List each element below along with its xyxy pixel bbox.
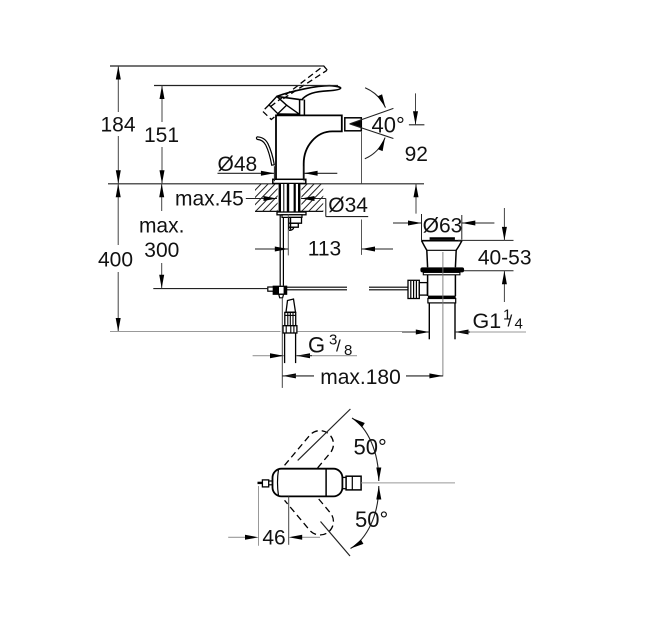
dimension 400 bottom reference line: [110, 331, 281, 333]
svg-text:50°: 50°: [354, 434, 387, 459]
svg-text:/: /: [336, 337, 341, 356]
hose tube: [284, 333, 286, 363]
svg-text:G1: G1: [473, 309, 502, 333]
svg-text:400: 400: [98, 248, 133, 271]
mounting washer: [277, 212, 306, 215]
side outlet tube: [419, 283, 427, 296]
svg-text:40-53: 40-53: [478, 246, 532, 269]
svg-text:40°: 40°: [372, 112, 405, 137]
faucet body outline: [276, 115, 342, 179]
svg-text:Ø48: Ø48: [218, 153, 258, 176]
mounting nut: [282, 215, 302, 218]
faucet centre line below deck: [287, 215, 289, 256]
aerator block: [345, 118, 362, 131]
svg-text:92: 92: [405, 143, 428, 166]
svg-text:Ø34: Ø34: [328, 194, 368, 217]
svg-text:G: G: [308, 333, 325, 358]
centre line right: [361, 482, 455, 484]
handle base cube: [269, 96, 287, 113]
dimension 151 extension line: [154, 85, 338, 87]
dimension 184: [100, 66, 135, 184]
horizontal rod double segment: [287, 286, 347, 288]
shank (threaded) below deck: [279, 184, 301, 213]
svg-text:4: 4: [515, 316, 523, 333]
svg-text:max.45: max.45: [175, 188, 244, 211]
junction bottom tip: [279, 294, 284, 298]
body divider line: [325, 469, 327, 496]
dimension max.45 leader: [175, 188, 277, 211]
dimension 92: [405, 93, 428, 213]
svg-text:Ø63: Ø63: [423, 214, 463, 237]
body left inner step: [278, 469, 279, 496]
handle swing dashed position upper: [285, 425, 339, 483]
handle neck: [299, 99, 301, 114]
svg-text:151: 151: [144, 124, 179, 147]
dimension max.180: [282, 298, 443, 389]
rod junction block: [273, 286, 286, 294]
base plate: [273, 179, 306, 183]
svg-text:/: /: [508, 312, 513, 331]
svg-text:8: 8: [344, 342, 352, 359]
hose angled top: [286, 299, 296, 312]
dimension G1 1/4: [402, 307, 526, 335]
swing limit line lower: [321, 522, 351, 557]
actuator step 2: [289, 223, 299, 227]
dimension 151: [144, 86, 179, 184]
handle swing dashed position lower: [285, 483, 339, 541]
rubber gasket: [420, 267, 464, 272]
flange joint line: [427, 249, 456, 251]
aerator block top view: [346, 476, 361, 490]
hose G3/8 nut: [283, 326, 297, 333]
spout neck: [342, 476, 346, 478]
pull rod top view: [258, 482, 263, 484]
pop-up waste drain body: [408, 237, 464, 376]
junction left tube: [268, 287, 274, 291]
plug cap: [430, 237, 455, 240]
dimension 50deg lower: [349, 486, 388, 551]
dimension O63: [393, 214, 494, 240]
dimension O48: [218, 153, 338, 181]
drain centre line: [442, 252, 444, 376]
svg-text:max.180: max.180: [320, 366, 401, 389]
horizontal rod right segment: [369, 286, 408, 288]
svg-text:184: 184: [100, 113, 135, 136]
horizontal pop-up rod (left thin): [153, 288, 267, 290]
deck hatch right: [280, 183, 350, 212]
hose upper nut: [285, 312, 296, 325]
deck underside line: [255, 210, 323, 212]
flange sides: [422, 241, 428, 268]
dimension 50deg upper: [351, 416, 387, 481]
tailpipe: [428, 303, 430, 339]
dimension G3/8: [253, 331, 357, 359]
actuator tip: [289, 227, 294, 230]
dimension 113: [255, 131, 393, 260]
dimension 40deg spray cone: [350, 88, 405, 159]
dimension 400: [98, 184, 133, 332]
body rounded rect: [273, 469, 343, 497]
drain body sides: [427, 275, 429, 296]
svg-text:113: 113: [308, 237, 341, 260]
svg-text:max.: max.: [139, 215, 185, 238]
handle raised position (dashed): [263, 66, 328, 120]
deck surface line: [108, 183, 424, 185]
swing limit line upper: [298, 409, 351, 460]
body bottom thick line: [428, 296, 456, 299]
pull-rod knob (side, left of body): [256, 137, 274, 165]
dimension O34 leader: [301, 194, 368, 217]
washer under gasket: [423, 272, 460, 274]
actuator shaft lines: [288, 217, 290, 229]
pull rod vertical: [279, 215, 281, 286]
svg-text:300: 300: [144, 239, 179, 262]
deck hatch left: [234, 183, 304, 212]
dimension 40-53: [458, 208, 532, 302]
knurled knob: [408, 280, 419, 298]
svg-text:46: 46: [262, 526, 285, 549]
dimension 184 extension line top: [110, 65, 324, 67]
bottom nut band: [428, 299, 456, 303]
handle lever (solid): [277, 86, 341, 100]
svg-text:50°: 50°: [355, 507, 388, 532]
actuator step 1: [289, 217, 302, 223]
dimension 46: [228, 486, 320, 549]
dimension max.300: [139, 184, 185, 288]
flange top line: [421, 240, 462, 242]
bottom view: body top outline: [258, 469, 456, 497]
